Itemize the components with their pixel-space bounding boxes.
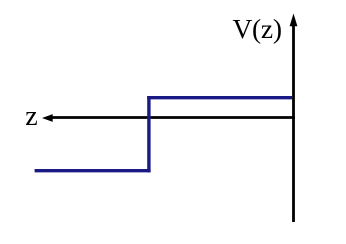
potential curve: upper level segment (step to origin, V positive): [147, 96, 292, 99]
svg-text:V(z): V(z): [233, 13, 282, 44]
z axis arrowhead (left): [42, 114, 53, 122]
potential curve: step discontinuity (vertical jump): [147, 96, 150, 172]
V axis arrowhead (up): [290, 14, 298, 27]
V axis line (vertical): [292, 24, 295, 222]
svg-text:z: z: [25, 101, 37, 132]
z axis line (horizontal): [50, 116, 295, 119]
potential curve: lower level segment (z &gt; step, V negative): [35, 169, 151, 172]
